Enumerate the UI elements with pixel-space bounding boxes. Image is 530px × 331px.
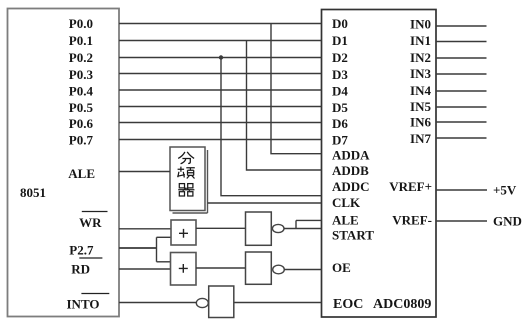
svg-text:CLK: CLK [332, 195, 361, 210]
wire EOC to inverter G5 [234, 302, 322, 304]
INT0 overline [81, 293, 109, 295]
wire IN1 [436, 41, 487, 43]
svg-text:P0.2: P0.2 [69, 50, 93, 65]
svg-text:ADC0809: ADC0809 [373, 297, 431, 312]
svg-text:EOC: EOC [333, 297, 363, 312]
wire P0.2 to D2 [119, 57, 322, 59]
svg-text:IN1: IN1 [410, 33, 431, 48]
wire riser P0.2 to ADDC [221, 58, 322, 196]
svg-text:P0.5: P0.5 [69, 100, 94, 115]
svg-text:D6: D6 [332, 116, 348, 131]
svg-text:ADDA: ADDA [332, 148, 370, 163]
wire G5 output to INT0 [119, 302, 196, 304]
wire WR to OR gate G1 [119, 228, 171, 230]
WR overline [82, 211, 108, 213]
wire P0.0 to D0 [119, 23, 322, 25]
wire divider to CLK [208, 202, 322, 204]
svg-text:D4: D4 [332, 84, 348, 99]
frequency divider box (分频器) [170, 147, 205, 211]
wire G4 output to OE [284, 269, 321, 271]
wire P2.7 riser [156, 237, 158, 261]
svg-text:RD: RD [71, 262, 90, 277]
IC U2 ADC0809 body [322, 10, 437, 318]
svg-text:P0.3: P0.3 [69, 67, 94, 82]
wire P2.7 stub to G2 [157, 261, 171, 263]
svg-text:+5V: +5V [493, 183, 517, 198]
svg-text:P0.4: P0.4 [69, 84, 94, 99]
svg-text:IN4: IN4 [410, 83, 431, 98]
wire riser P0.1 to ADDB [247, 41, 322, 171]
wire P0.7 to D7 [119, 139, 322, 141]
svg-text:VREF+: VREF+ [389, 179, 432, 194]
wire VREF+ to +5V [436, 189, 487, 191]
svg-text:D5: D5 [332, 100, 348, 115]
svg-text:INTO: INTO [67, 297, 100, 312]
OR gate G1 body [171, 220, 196, 245]
wire P2.7 stub to G1 [157, 236, 172, 238]
wire P0.4 to D4 [119, 89, 322, 91]
inverter G3 body [246, 212, 272, 245]
svg-text:ALE: ALE [332, 213, 359, 228]
wire P0.6 to D6 [119, 122, 322, 124]
wire G1 to inverter G3 [196, 227, 246, 229]
wire P0.3 to D3 [119, 73, 322, 75]
svg-text:P0.7: P0.7 [69, 133, 94, 148]
inverter G4 bubble [273, 265, 285, 274]
divider text char 分 [178, 152, 194, 164]
inverter G3 bubble [272, 224, 284, 232]
svg-text:START: START [332, 228, 374, 243]
svg-text:D0: D0 [332, 16, 348, 31]
svg-text:ADDC: ADDC [332, 179, 370, 194]
inverter G5 bubble [196, 298, 208, 307]
svg-text:OE: OE [332, 260, 351, 275]
svg-text:P2.7: P2.7 [69, 243, 94, 258]
OR gate G1 plus sign [179, 229, 188, 238]
svg-text:ADDB: ADDB [332, 163, 369, 178]
OR gate G2 body [171, 253, 197, 286]
svg-text:IN0: IN0 [410, 16, 431, 31]
svg-text:GND: GND [493, 214, 522, 229]
inverter G5 body [209, 286, 234, 318]
wire RD to OR gate G2 [119, 268, 171, 270]
svg-text:VREF-: VREF- [392, 213, 432, 228]
wire VREF- to GND [436, 220, 487, 222]
svg-text:IN3: IN3 [410, 66, 431, 81]
svg-text:D7: D7 [332, 133, 348, 148]
divider shadow right edge [207, 150, 209, 213]
wire P2.7 trunk [119, 247, 157, 249]
wire P0.5 to D5 [119, 106, 322, 108]
wire IN6 [436, 121, 487, 123]
wire IN7 [436, 137, 487, 139]
svg-text:D2: D2 [332, 50, 348, 65]
divider shadow bottom edge [173, 212, 208, 214]
wire IN5 [436, 106, 487, 108]
svg-text:WR: WR [79, 215, 102, 230]
inverter G4 body [246, 252, 272, 284]
wire IN2 [436, 57, 487, 59]
svg-text:IN2: IN2 [410, 50, 431, 65]
wire P0.1 to D1 [119, 40, 322, 42]
RD overline [79, 257, 102, 259]
svg-text:D3: D3 [332, 67, 348, 82]
svg-text:D1: D1 [332, 33, 348, 48]
svg-text:IN6: IN6 [410, 115, 431, 130]
wire IN4 [436, 90, 487, 92]
svg-text:8051: 8051 [20, 185, 46, 200]
svg-text:P0.6: P0.6 [69, 116, 94, 131]
wire G3 output to START [284, 228, 322, 230]
IC U1 8051 body [8, 9, 120, 317]
wire G3 output jog riser [295, 220, 297, 228]
svg-text:P0.1: P0.1 [69, 33, 93, 48]
divider text char 频 [177, 167, 195, 179]
svg-text:P0.0: P0.0 [69, 16, 93, 31]
wire IN3 [436, 73, 487, 75]
wire G2 to inverter G4 [196, 267, 246, 269]
svg-text:ALE: ALE [68, 166, 95, 181]
svg-text:IN5: IN5 [410, 99, 431, 114]
OR gate G2 plus sign [179, 264, 188, 273]
wire ALE to divider [119, 171, 170, 173]
wire riser P0.0 to ADDA [271, 24, 322, 154]
wire IN0 [436, 25, 487, 27]
svg-text:IN7: IN7 [410, 131, 431, 146]
divider text char 器 [178, 184, 194, 196]
junction dot on P0.2 [219, 55, 223, 59]
wire G3 output to ALE [296, 219, 322, 221]
